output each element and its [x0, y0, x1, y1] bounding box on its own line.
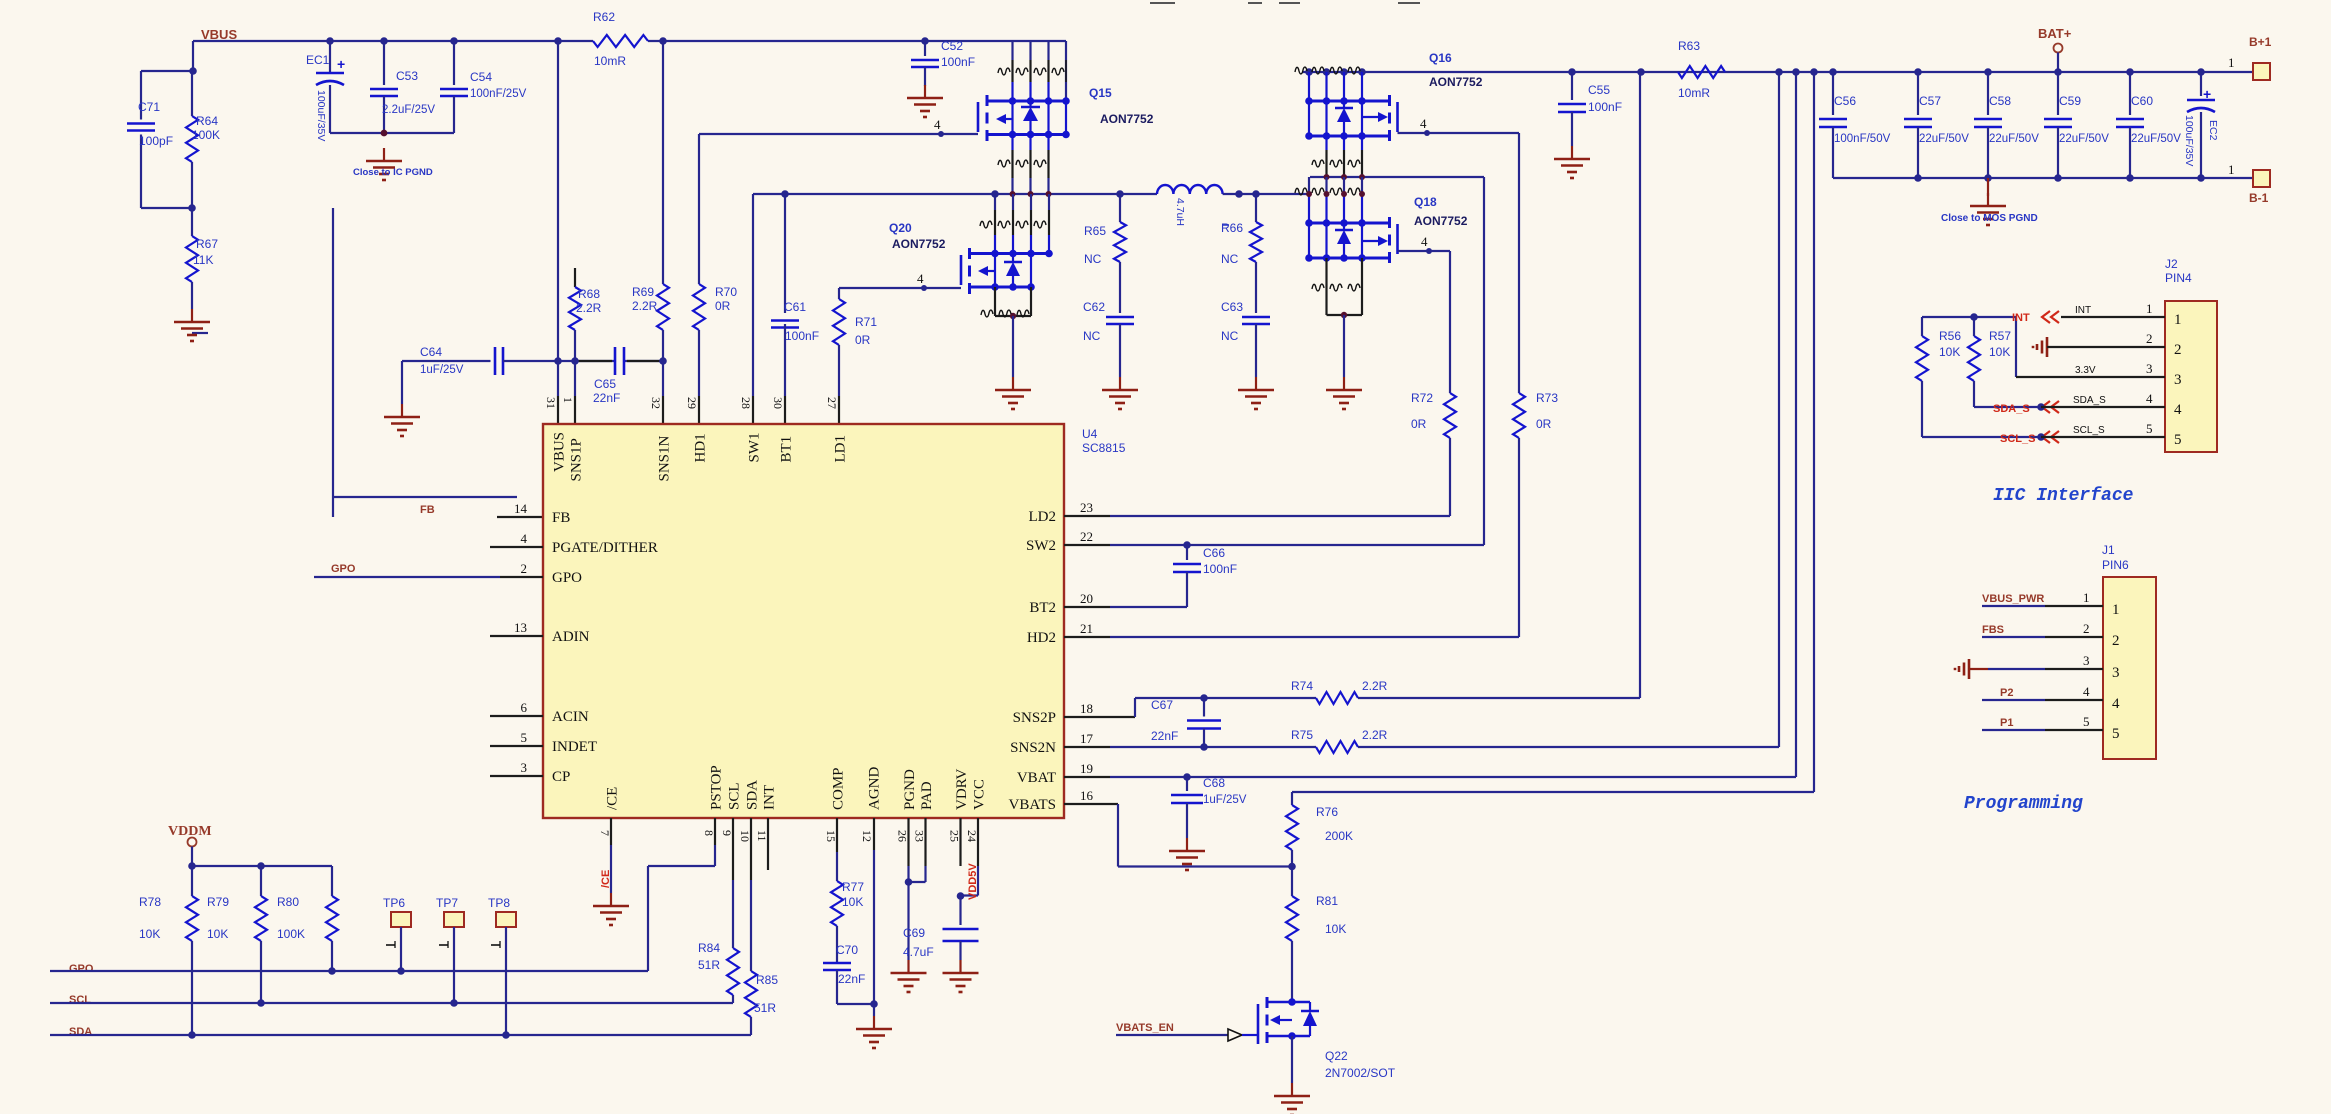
svg-text:AON7752: AON7752 [1414, 214, 1468, 228]
connector J1 pin numbers [2083, 590, 2120, 742]
svg-text:Q16: Q16 [1429, 51, 1452, 65]
diode Q18 body diode [1335, 223, 1353, 258]
wire GPO bus [50, 818, 715, 971]
capacitor EC2 [2183, 72, 2219, 178]
svg-text:4: 4 [1421, 234, 1428, 249]
resistor R72 [1411, 251, 1456, 516]
node SCL bus label [69, 994, 91, 1006]
ground C69 [943, 960, 979, 992]
svg-text:2.2uF/25V: 2.2uF/25V [382, 104, 435, 116]
capacitor C71 [127, 71, 173, 208]
node VDDM [168, 824, 212, 866]
svg-text:0R: 0R [1411, 417, 1427, 431]
wire inductor to Q18 [1223, 190, 1309, 198]
capacitor C65 [593, 347, 624, 405]
svg-text:/CE: /CE [600, 870, 612, 888]
svg-text:VDD5V: VDD5V [967, 863, 979, 900]
resistor R71 [833, 288, 877, 424]
svg-text:C70: C70 [836, 943, 858, 957]
svg-text:SNS2N: SNS2N [1010, 740, 1056, 756]
wire Q22 source [1291, 1036, 1293, 1083]
svg-text:VDDM: VDDM [168, 824, 212, 839]
resistor R84 [698, 818, 739, 1003]
svg-text:R74: R74 [1291, 679, 1313, 693]
svg-text:4: 4 [934, 117, 941, 132]
ground under C55 [1554, 146, 1590, 178]
svg-text:ACIN: ACIN [552, 709, 589, 725]
svg-text:SCL: SCL [727, 782, 743, 810]
svg-text:VBUS: VBUS [552, 432, 568, 472]
svg-text:0R: 0R [715, 299, 731, 313]
wire Q16 gate to R73 [1398, 116, 1520, 136]
svg-text:VDRV: VDRV [954, 769, 970, 810]
svg-text:0R: 0R [1536, 417, 1552, 431]
wire SCL bus [50, 1002, 733, 1004]
diode Q22 body diode [1292, 1002, 1319, 1036]
svg-text:10K: 10K [1939, 345, 1960, 359]
svg-text:C57: C57 [1919, 94, 1941, 108]
wire pin4 PGATE stub [490, 546, 543, 548]
svg-text:Q18: Q18 [1414, 195, 1437, 209]
ground J1 pin3 [1955, 659, 2103, 679]
svg-text:/CE: /CE [605, 787, 621, 810]
svg-text:Q15: Q15 [1089, 86, 1112, 100]
transistor Q15 drain pins [998, 41, 1066, 101]
capacitor C57 [1904, 72, 1969, 178]
svg-text:BAT+: BAT+ [2038, 26, 2072, 41]
resistor R70 [693, 134, 737, 424]
transistor Q16 body [1362, 95, 1398, 141]
svg-text:R75: R75 [1291, 728, 1313, 742]
svg-text:INT: INT [762, 785, 778, 810]
transistor Q22 label [1325, 1049, 1396, 1080]
node VBATS_EN label [1116, 1022, 1174, 1034]
op-amp U4 right pin labels [1008, 500, 1093, 813]
capacitor C63 [1221, 300, 1270, 377]
svg-text:VCC: VCC [972, 779, 988, 810]
resistor R73 [1513, 133, 1558, 637]
svg-text:19: 19 [1080, 761, 1093, 776]
svg-text:100uF/35V: 100uF/35V [315, 90, 327, 141]
svg-text:SC8815: SC8815 [1082, 441, 1126, 455]
wire FB net [192, 208, 543, 517]
svg-text:ADIN: ADIN [552, 629, 590, 645]
wire to C71 [141, 70, 193, 72]
svg-text:C71: C71 [138, 100, 160, 114]
svg-text:BT2: BT2 [1029, 600, 1056, 616]
svg-text:AGND: AGND [867, 767, 883, 810]
svg-text:SCL: SCL [69, 994, 91, 1006]
svg-text:16: 16 [1080, 788, 1094, 803]
svg-text:4.7uH: 4.7uH [1174, 198, 1186, 226]
svg-text:1: 1 [2146, 301, 2153, 316]
svg-text:10K: 10K [207, 927, 228, 941]
wire VBUS left drop [189, 41, 197, 75]
svg-text:GPO: GPO [552, 570, 582, 586]
svg-text:31: 31 [544, 397, 558, 409]
capacitor C59 [2044, 72, 2109, 178]
ground under Q18 [1326, 377, 1362, 409]
svg-text:C60: C60 [2131, 94, 2153, 108]
svg-text:R66: R66 [1221, 221, 1243, 235]
svg-text:HD1: HD1 [693, 433, 709, 462]
resistor R74 [1291, 679, 1640, 704]
capacitor C70 [823, 943, 874, 1004]
svg-text:C55: C55 [1588, 83, 1610, 97]
wire SNS1P pin drop [574, 361, 576, 424]
svg-text:R77: R77 [842, 880, 864, 894]
svg-text:P1: P1 [2000, 717, 2013, 729]
ground under C62 [1102, 377, 1138, 409]
svg-text:2.2R: 2.2R [576, 301, 602, 315]
svg-text:51R: 51R [754, 1001, 776, 1015]
svg-text:11K: 11K [193, 253, 213, 267]
svg-text:SW2: SW2 [1026, 538, 1056, 554]
svg-text:B+1: B+1 [2249, 35, 2272, 49]
svg-text:30: 30 [771, 397, 785, 409]
svg-text:R68: R68 [578, 287, 600, 301]
svg-text:GPO: GPO [69, 963, 94, 975]
svg-text:2: 2 [2112, 633, 2120, 649]
transistor Q18 source pins [1312, 258, 1362, 318]
transistor Q18 source bus [1305, 223, 1389, 262]
svg-text:C58: C58 [1989, 94, 2011, 108]
op-amp U4 label [1082, 427, 1126, 455]
inductor 4.7uH [1157, 185, 1223, 226]
svg-text:+: + [337, 56, 345, 72]
svg-text:32: 32 [649, 397, 663, 409]
diode Q16 body diode [1335, 101, 1353, 136]
resistor R68 [569, 268, 602, 361]
svg-text:0R: 0R [855, 333, 871, 347]
resistor R64 [186, 71, 220, 208]
svg-text:SDA_S: SDA_S [2073, 395, 2106, 406]
transistor Q15 body [978, 95, 1016, 141]
svg-text:C68: C68 [1203, 776, 1225, 790]
title remnant text [1150, 2, 1420, 4]
svg-text:R72: R72 [1411, 391, 1433, 405]
transistor Q15 label [1089, 86, 1154, 126]
svg-text:R78: R78 [139, 895, 161, 909]
test point TP7 [436, 896, 464, 1007]
svg-text:C53: C53 [396, 69, 418, 83]
svg-text:LD2: LD2 [1029, 509, 1057, 525]
svg-text:14: 14 [514, 501, 528, 516]
wire VBAT riser [1795, 72, 1797, 777]
svg-text:PSTOP: PSTOP [709, 765, 725, 810]
svg-text:EC1: EC1 [306, 53, 330, 67]
svg-text:3: 3 [521, 760, 528, 775]
svg-text:TP6: TP6 [383, 896, 405, 910]
svg-text:NC: NC [1221, 329, 1239, 343]
transistor Q22 body [1258, 997, 1296, 1045]
capacitor C64 [402, 345, 558, 376]
wire SW1 node [753, 190, 1157, 198]
svg-text:4.7uF: 4.7uF [903, 945, 934, 959]
node BAT+ terminal [2038, 26, 2072, 72]
svg-text:SCL_S: SCL_S [2000, 433, 2035, 445]
svg-text:C64: C64 [420, 345, 442, 359]
svg-text:1uF/25V: 1uF/25V [1203, 794, 1247, 806]
transistor Q20 label [889, 221, 946, 251]
capacitor C67 [1151, 698, 1221, 747]
svg-text:1: 1 [2083, 590, 2090, 605]
resistor R75 [1291, 728, 1779, 753]
svg-text:100K: 100K [277, 927, 305, 941]
resistor R76 [1286, 792, 1353, 866]
svg-text:3: 3 [2174, 372, 2182, 388]
ground J2 pin2 [2033, 337, 2165, 357]
svg-text:Close to IC PGND: Close to IC PGND [353, 167, 433, 178]
ground battery PGND [1970, 178, 2006, 225]
wire VBATS_EN [1116, 1029, 1258, 1041]
ground PGND [891, 960, 927, 992]
svg-text:22uF/50V: 22uF/50V [1989, 133, 2039, 145]
svg-text:C56: C56 [1834, 94, 1856, 108]
svg-text:4: 4 [917, 271, 924, 286]
svg-text:VBATS: VBATS [1008, 797, 1056, 813]
svg-text:R64: R64 [196, 114, 218, 128]
svg-text:3.3V: 3.3V [2075, 365, 2096, 376]
svg-text:FB: FB [552, 510, 570, 526]
svg-text:1: 1 [2228, 55, 2235, 70]
svg-text:2: 2 [2146, 331, 2153, 346]
svg-text:SCL_S: SCL_S [2073, 425, 2105, 436]
svg-text:U4: U4 [1082, 427, 1098, 441]
svg-text:Programming: Programming [1964, 794, 2083, 814]
svg-text:SDA: SDA [69, 1026, 92, 1038]
svg-text:4: 4 [1420, 116, 1427, 131]
svg-text:SNS1N: SNS1N [657, 435, 673, 481]
wire EC1 C53 C54 bottom [330, 130, 454, 137]
svg-text:VBAT: VBAT [1017, 770, 1056, 786]
svg-text:SNS1P: SNS1P [569, 438, 585, 481]
wire CE pin [600, 818, 612, 893]
ground under C52 [907, 85, 943, 117]
wire HD1 to Q15 gate [699, 117, 978, 137]
svg-text:100nF: 100nF [1588, 100, 1622, 114]
svg-text:NC: NC [1221, 252, 1239, 266]
capacitor C52 [911, 39, 975, 86]
svg-text:PAD: PAD [919, 781, 935, 810]
wire INDET stub [490, 745, 543, 747]
capacitor C61 [771, 194, 819, 424]
connector J2 body [2165, 257, 2217, 452]
svg-text:4: 4 [2146, 391, 2153, 406]
ground under Q22 [1274, 1083, 1310, 1114]
wire VDDM rail [188, 862, 332, 870]
svg-text:C65: C65 [594, 377, 616, 391]
resistor R78 [139, 866, 198, 1039]
wire R76 riser [1813, 72, 1815, 792]
wire SW2 [1064, 177, 1484, 549]
ground AGND [856, 1016, 892, 1048]
svg-text:AON7752: AON7752 [1429, 75, 1483, 89]
op-amp U4 left pin labels [514, 501, 658, 785]
wire J2 pin3 3.3V [2016, 365, 2165, 377]
svg-text:B-1: B-1 [2249, 191, 2269, 205]
capacitor C58 [1974, 72, 2039, 178]
resistor R56 [1916, 317, 2041, 437]
diode Q15 body diode [1021, 101, 1040, 135]
svg-text:51R: 51R [698, 958, 720, 972]
svg-text:22uF/50V: 22uF/50V [2131, 133, 2181, 145]
svg-text:22uF/50V: 22uF/50V [2059, 133, 2109, 145]
svg-text:Q20: Q20 [889, 221, 912, 235]
wire ADIN stub [490, 635, 543, 637]
svg-text:R85: R85 [756, 973, 778, 987]
wire R76 top link [1292, 791, 1814, 793]
transistor Q20 upper bus [970, 250, 1053, 258]
svg-text:PGATE/DITHER: PGATE/DITHER [552, 540, 658, 556]
svg-text:C67: C67 [1151, 698, 1173, 712]
svg-text:BT1: BT1 [779, 436, 795, 463]
transistor Q15 source pins [998, 135, 1049, 195]
wire VBUS rail [193, 40, 1066, 42]
svg-text:100uF/35V: 100uF/35V [2183, 115, 2195, 166]
svg-text:22uF/50V: 22uF/50V [1919, 133, 1969, 145]
wire J1 pin4 P2 [1982, 687, 2103, 700]
svg-text:LD1: LD1 [833, 435, 849, 463]
svg-text:AON7752: AON7752 [1100, 112, 1154, 126]
ground under CE [593, 893, 629, 925]
svg-text:29: 29 [685, 397, 699, 409]
svg-text:P2: P2 [2000, 687, 2013, 699]
svg-text:2N7002/SOT: 2N7002/SOT [1325, 1066, 1396, 1080]
svg-text:2: 2 [521, 561, 528, 576]
resistor R57 [1968, 313, 2041, 407]
svg-text:27: 27 [825, 397, 839, 409]
svg-text:10K: 10K [139, 927, 160, 941]
wire Q18 source to ground [1343, 315, 1345, 377]
node VBUS label [201, 27, 237, 42]
ground under R67 [174, 309, 210, 341]
transistor Q15 source bus [987, 101, 1070, 138]
svg-text:100nF/25V: 100nF/25V [470, 88, 527, 100]
resistor R80 [277, 866, 338, 975]
text close to IC PGND [353, 167, 433, 178]
svg-text:C62: C62 [1083, 300, 1105, 314]
svg-text:3: 3 [2083, 653, 2090, 668]
svg-text:NC: NC [1084, 252, 1102, 266]
svg-text:100nF: 100nF [785, 329, 819, 343]
node FB label [420, 504, 435, 516]
wire HD2 [1064, 636, 1519, 638]
wire R74 riser [1639, 72, 1641, 698]
svg-text:4: 4 [521, 531, 528, 546]
svg-text:PGND: PGND [902, 769, 918, 810]
wire J2 pin5 SCL_S [2000, 425, 2165, 445]
svg-text:R79: R79 [207, 895, 229, 909]
svg-text:12: 12 [860, 830, 874, 842]
svg-text:10mR: 10mR [1678, 86, 1710, 100]
wire VBAT [1064, 773, 1796, 781]
wire PGND PAD [905, 818, 926, 960]
svg-text:INT: INT [2012, 312, 2030, 324]
transistor Q18 body [1362, 217, 1398, 263]
svg-text:3: 3 [2112, 665, 2120, 681]
capacitor C53 [370, 41, 435, 133]
svg-text:22nF: 22nF [1151, 729, 1178, 743]
svg-text:R57: R57 [1989, 329, 2011, 343]
svg-text:1: 1 [2112, 602, 2120, 618]
svg-text:R73: R73 [1536, 391, 1558, 405]
svg-text:100nF/50V: 100nF/50V [1834, 133, 1891, 145]
capacitor C62 [1083, 300, 1134, 377]
wire LD1 to Q20 gate [839, 271, 961, 291]
svg-text:2.2R: 2.2R [1362, 728, 1388, 742]
svg-text:1: 1 [2228, 162, 2235, 177]
wire SNS2P [1064, 694, 1316, 717]
connector J1 body [2102, 543, 2156, 759]
wire VDRV VCC [957, 818, 979, 900]
svg-text:5: 5 [521, 730, 528, 745]
svg-text:C61: C61 [784, 300, 806, 314]
svg-text:17: 17 [1080, 731, 1094, 746]
ground under C64 [384, 361, 420, 436]
svg-text:100nF: 100nF [941, 55, 975, 69]
svg-text:R80: R80 [277, 895, 299, 909]
resistor R77 [831, 818, 864, 963]
wire J2 pin4 SDA_S [1993, 395, 2165, 415]
ground under C63 [1238, 377, 1274, 409]
svg-text:C52: C52 [941, 39, 963, 53]
wire Q20 source to ground [1012, 316, 1014, 377]
svg-text:FBS: FBS [1982, 624, 2004, 636]
wire AGND [870, 818, 878, 1016]
svg-text:R69: R69 [632, 285, 654, 299]
svg-text:5: 5 [2146, 421, 2153, 436]
svg-text:R76: R76 [1316, 805, 1338, 819]
wire INT stub [767, 818, 769, 870]
svg-text:VBUS_PWR: VBUS_PWR [1982, 593, 2044, 605]
op-amp U4 bottom pin labels [598, 765, 988, 842]
op-amp U4 top pin labels [544, 397, 849, 482]
svg-text:INT: INT [2075, 305, 2091, 316]
resistor R79 [207, 866, 267, 1007]
svg-text:SW1: SW1 [747, 433, 763, 463]
svg-text:R70: R70 [715, 285, 737, 299]
wire LD2 [1064, 515, 1450, 517]
capacitor C66 [1173, 545, 1237, 607]
svg-text:IIC Interface: IIC Interface [1993, 486, 2134, 506]
svg-text:4: 4 [2112, 696, 2120, 712]
wire battery rail [1295, 67, 2253, 76]
svg-text:C66: C66 [1203, 546, 1225, 560]
wire J2 pin1 INT [2012, 305, 2165, 324]
resistor R69 [632, 41, 669, 361]
svg-text:TP8: TP8 [488, 896, 510, 910]
svg-text:200K: 200K [1325, 829, 1353, 843]
svg-text:R63: R63 [1678, 39, 1700, 53]
svg-text:22nF: 22nF [838, 972, 865, 986]
svg-text:20: 20 [1080, 591, 1093, 606]
svg-text:INDET: INDET [552, 739, 597, 755]
node GPO bus label [69, 963, 94, 975]
svg-text:VBUS: VBUS [201, 27, 237, 42]
test point TP6 [383, 896, 411, 975]
svg-text:Close to MOS PGND: Close to MOS PGND [1941, 213, 2038, 224]
wire ACIN stub [490, 715, 543, 717]
svg-text:Q22: Q22 [1325, 1049, 1348, 1063]
svg-text:R81: R81 [1316, 894, 1338, 908]
svg-text:NC: NC [1083, 329, 1101, 343]
svg-text:TP7: TP7 [436, 896, 458, 910]
resistor R65 [1084, 194, 1126, 313]
capacitor C55 [1558, 72, 1622, 146]
text Programming [1964, 794, 2083, 814]
resistor R63 [1678, 39, 1725, 100]
